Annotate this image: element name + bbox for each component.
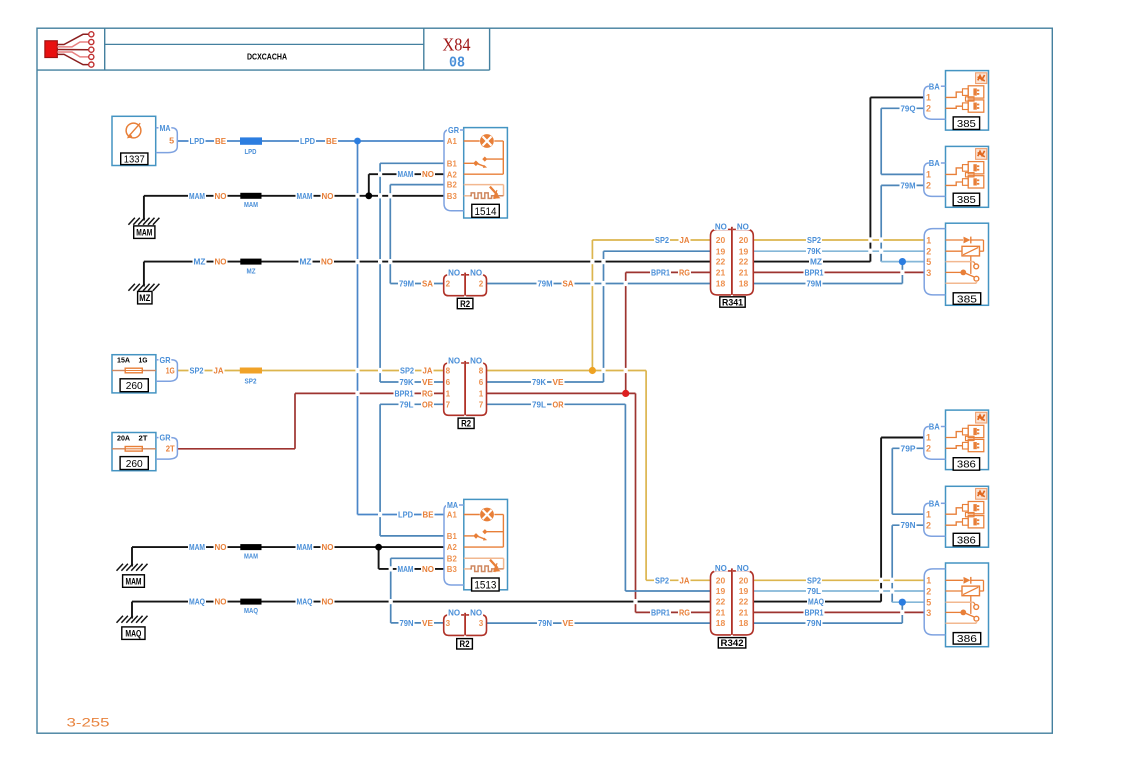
wire 79Q vertical 385.2 to 385.1 [880,108,882,174]
svg-text:JA: JA [680,575,690,585]
junction LPD [354,138,361,145]
wire SP2 R341.20 to 385.1 [753,239,923,241]
svg-text:MAM: MAM [136,228,152,239]
svg-text:1: 1 [926,170,931,180]
svg-text:19: 19 [739,586,749,596]
svg-text:SP2: SP2 [655,575,669,585]
splice LPD [240,137,262,156]
wire SP2-JA into R342.20 [646,579,710,581]
svg-text:21: 21 [739,608,749,618]
svg-text:NO: NO [715,222,728,232]
wire 79N vertical 1513.B2 down to R2 pin3 row [390,558,392,623]
svg-text:18: 18 [716,279,726,289]
svg-text:22: 22 [739,597,749,607]
wire 79M-SA left of R2 [390,283,444,285]
svg-text:A2: A2 [447,542,457,552]
wire 79K R341.19 to 385.2 [753,250,923,252]
svg-text:LPD: LPD [245,149,257,156]
svg-text:BPR1: BPR1 [805,267,824,277]
wire 79N vertical junction to R342.18 row [901,602,903,623]
svg-text:22: 22 [716,597,726,607]
wire SP2-JA fuse to R2.8 [177,370,444,372]
svg-text:21: 21 [716,268,726,278]
svg-text:79N: 79N [807,618,822,628]
svg-text:1: 1 [926,235,932,246]
svg-text:MAM: MAM [297,191,313,201]
svg-text:DCXCACHA: DCXCACHA [247,52,287,61]
svg-text:79M: 79M [901,180,916,190]
wire BPR1 vertical up to R341.21 [625,272,627,393]
svg-text:NO: NO [737,563,750,573]
wire LPD-BE into 1513.A1 [358,514,444,516]
svg-text:15A: 15A [117,356,131,365]
svg-text:NO: NO [448,608,461,618]
wire MAM-NO horizontal top (ground to 1514.B3) [144,195,444,197]
svg-text:2: 2 [926,181,931,191]
svg-text:20: 20 [739,575,749,585]
svg-text:18: 18 [739,618,749,628]
svg-text:NO: NO [215,191,228,201]
svg-text:5: 5 [926,257,932,268]
wire 79P into bottom small 386 pin1 [892,513,924,515]
junction 79N at 386 pin5 [899,599,906,606]
svg-text:20: 20 [716,575,726,585]
svg-text:NO: NO [448,267,461,277]
svg-text:79K: 79K [400,377,414,387]
svg-text:MAM: MAM [297,542,313,552]
ground stub MAM bottom [131,547,133,566]
svg-text:A1: A1 [447,510,457,520]
wire 79L into R342.19 [625,590,710,592]
svg-text:MAQ: MAQ [297,597,313,607]
component 1514 courtesy lamp unit [444,125,507,218]
wire BPR1 R342.21 to 386.3 [753,611,923,613]
svg-text:20: 20 [739,235,749,245]
wire MAQ-NO horizontal (ground to R342.22) [132,601,711,603]
splice MAQ [240,599,261,615]
ground MZ [128,284,159,304]
svg-text:MZ: MZ [194,257,206,267]
svg-text:260: 260 [126,380,143,392]
svg-text:2: 2 [926,444,931,454]
wire 79Q into 385.2 [881,107,924,109]
svg-text:5: 5 [169,135,174,145]
wire MZ R341.22 [753,261,870,263]
page number 3-255 [67,715,110,729]
svg-text:MZ: MZ [810,257,822,267]
svg-text:1514: 1514 [475,206,497,218]
svg-text:3: 3 [926,268,931,279]
wire 79L vertical R2 pin7 row down to 1513.B1 [379,404,381,536]
svg-text:R342: R342 [721,638,744,649]
svg-text:NO: NO [422,169,435,179]
svg-text:3: 3 [926,608,931,619]
wire 79K-VE right of R2.6 [486,381,603,383]
svg-text:3: 3 [446,618,451,628]
ground stub MAM top [143,196,145,221]
wire 79M stub from 1514.B2 [390,184,444,186]
svg-text:MZ: MZ [139,293,150,304]
svg-text:JA: JA [423,366,433,376]
connector 386 lock actuator (pins 1/2/5/3) [924,563,988,647]
svg-text:BA: BA [929,498,940,508]
svg-text:A1: A1 [447,136,457,146]
svg-text:2T: 2T [166,444,176,454]
svg-text:NO: NO [422,564,435,574]
svg-text:19: 19 [739,246,749,256]
sheet code X84 [443,35,471,55]
harness icon [45,32,94,68]
svg-text:386: 386 [957,459,976,471]
wire SP2 R342.20 to 386.1 [753,579,923,581]
wire 79M into middle 385 pin2 [881,184,924,186]
svg-text:JA: JA [680,235,690,245]
svg-text:NO: NO [470,267,483,277]
wire 79L R342.19 to 386.2 [753,590,923,592]
svg-text:1: 1 [926,433,931,443]
wire 79K into R341.19 [604,250,711,252]
wire 79L-OR left of R2.7 [380,403,444,405]
wire LPD vertical (1337/1514.A1 down to 1513.A1) [357,141,359,515]
ground stub MZ [143,262,145,287]
connector 386 upper door lock [924,410,989,471]
wire MAM branch vertical to 1514.A2 [368,174,370,196]
wire 79N into 386 pin5 [892,601,924,603]
fuse 20A 2T box 260 [112,433,177,471]
svg-text:NO: NO [215,597,228,607]
svg-text:79N: 79N [538,618,552,628]
svg-text:SP2: SP2 [807,235,821,245]
svg-text:B2: B2 [447,180,457,190]
svg-text:MAM: MAM [126,577,142,588]
ground MAM bottom [117,564,148,588]
wire 79M into 385 pin5 [881,261,924,263]
svg-text:79N: 79N [901,520,916,530]
svg-text:SP2: SP2 [190,366,204,376]
svg-text:2: 2 [479,279,484,289]
svg-text:1337: 1337 [124,154,145,166]
component 1337 lighting rheostat [112,116,177,165]
svg-text:2: 2 [926,247,931,258]
connector 385 upper door lock [924,71,989,131]
connector R2 (bottom, pin 3) [444,608,487,651]
wire name labels [188,103,917,628]
svg-text:MAM: MAM [398,564,414,574]
wire 79L-OR right of R2.7 [486,403,625,405]
wire SP2 right of R2.8 [486,370,646,372]
svg-text:MAM: MAM [189,191,205,201]
svg-text:19: 19 [716,586,726,596]
svg-text:BE: BE [423,510,434,520]
svg-text:385: 385 [957,293,977,305]
svg-text:VE: VE [563,618,574,628]
svg-text:VE: VE [422,377,433,387]
svg-text:1513: 1513 [474,580,496,592]
wire MAM-NO horizontal bottom (ground to 1513.A2) [132,546,444,548]
connector R341 [711,222,754,309]
svg-text:GR: GR [160,355,171,365]
svg-text:B2: B2 [447,553,457,563]
svg-text:R2: R2 [460,639,470,650]
connector R2 (top, pin 2) [444,267,487,310]
svg-text:21: 21 [716,608,726,618]
wire BPR1 R341.21 to 385.3 [753,271,923,273]
connector R342 [711,563,754,649]
svg-text:MAM: MAM [398,169,414,179]
svg-text:MAQ: MAQ [189,597,205,607]
svg-text:MAM: MAM [244,202,258,209]
svg-text:SP2: SP2 [807,575,821,585]
svg-text:MAM: MAM [244,554,258,561]
svg-text:7: 7 [446,399,451,409]
junction MAM bottom [375,544,382,551]
svg-text:22: 22 [739,257,749,267]
svg-text:NO: NO [322,191,335,201]
wire 79N R342.18 [753,622,902,624]
svg-text:2T: 2T [139,433,148,442]
svg-text:A2: A2 [447,169,457,179]
connector 386 lower door lock [924,486,989,547]
wire 79Q into middle 385 pin1 [881,173,924,175]
svg-text:385: 385 [957,194,976,206]
svg-text:LPD: LPD [300,136,315,146]
svg-text:MAQ: MAQ [244,608,258,615]
wire SP2-JA into R341.20 [592,239,710,241]
wire 79K stub from 1514.B1 [380,162,444,164]
svg-text:1: 1 [926,93,931,103]
wire 79K vertical 1514.B1 to R2 pin6 row [379,163,381,382]
wire 79L into 1513.B1 [380,535,444,537]
svg-text:NO: NO [321,257,334,267]
sheet number 08 [449,56,465,72]
svg-text:21: 21 [739,268,749,278]
svg-text:2: 2 [926,520,931,530]
svg-text:BA: BA [929,422,940,432]
svg-text:79P: 79P [901,443,916,453]
svg-text:386: 386 [957,534,976,546]
svg-text:MAQ: MAQ [808,597,824,607]
wire BPR1 vertical from fuse 2T [294,393,296,448]
wire MAM-NO branch to 1514.A2 [369,173,444,175]
wire BPR1 right of R2.1 [486,392,635,394]
svg-text:MZ: MZ [300,257,312,267]
svg-text:2: 2 [926,104,931,114]
svg-text:1G: 1G [166,365,175,375]
wire 79K-VE left of R2.6 [380,381,444,383]
wire 79M vertical 385.2 down to pin5 row [880,185,882,261]
svg-text:BPR1: BPR1 [651,607,670,617]
svg-text:8: 8 [446,366,451,376]
connector 385 lock actuator (pins 1/2/5/3) [924,223,988,305]
junction BPR1 [622,390,629,397]
svg-text:2: 2 [926,586,931,597]
wire 79N-VE left of R2.3 [391,622,444,624]
svg-text:OR: OR [553,399,564,409]
svg-text:JA: JA [214,366,224,376]
splice SP2 [240,368,262,386]
connector 385 middle door lock [924,146,989,207]
svg-text:VE: VE [553,377,564,387]
svg-text:20A: 20A [117,433,131,442]
svg-text:79L: 79L [807,586,821,596]
splice MAM top [240,193,261,209]
svg-text:NO: NO [215,542,228,552]
svg-text:2: 2 [446,279,451,289]
svg-text:22: 22 [716,257,726,267]
wire 79N vertical 386.2 down to pin5 row [891,525,893,602]
wire MAQ into 386 pin1 [881,437,924,439]
ground stub MAQ [131,602,133,619]
title text DCXCACHA [247,52,287,61]
wire 79L vertical down to R342.19 [624,404,626,591]
svg-text:3: 3 [479,618,484,628]
svg-text:B3: B3 [447,191,457,201]
svg-text:NO: NO [737,222,750,232]
svg-text:B3: B3 [447,564,457,574]
svg-text:79M: 79M [538,279,553,289]
svg-text:GR: GR [160,433,171,443]
svg-text:1: 1 [926,576,932,587]
wire MAQ R342.22 [753,601,881,603]
ground MAQ [117,616,148,640]
svg-text:79L: 79L [532,399,546,409]
wire 79M R341.18 [753,283,902,285]
wire LPD-BE horizontal 1337 to 1514.A1 [177,140,444,142]
svg-text:SA: SA [563,279,574,289]
svg-text:6: 6 [446,377,451,387]
svg-text:NO: NO [448,356,461,366]
svg-text:X84: X84 [443,35,471,55]
svg-text:LPD: LPD [190,136,205,146]
svg-text:RG: RG [679,607,690,617]
svg-text:MA: MA [447,500,458,510]
svg-text:79K: 79K [532,377,546,387]
ground MAM top [128,218,159,239]
fuse 15A 1G box 260 [112,355,177,393]
svg-text:NO: NO [715,563,728,573]
svg-text:SP2: SP2 [245,378,257,385]
svg-text:08: 08 [449,56,465,72]
svg-text:1: 1 [446,389,451,399]
wire MAQ vertical up to 386 pin1 [880,438,882,602]
svg-text:RG: RG [422,388,433,398]
connector R2 (middle, pins 8/6/1/7) [444,356,487,430]
wire BPR1-RG left of R2.1 [295,392,444,394]
wire 79K vertical up to R341.19 [603,251,605,382]
svg-text:6: 6 [479,377,484,387]
svg-text:1: 1 [479,389,484,399]
wire MAM branch vertical to 1513.B3 [378,547,380,569]
svg-text:1: 1 [926,509,931,519]
svg-text:3-255: 3-255 [67,715,110,729]
svg-text:7: 7 [479,399,484,409]
svg-text:MAQ: MAQ [125,629,141,640]
svg-text:386: 386 [957,633,977,645]
wire 79N into bottom small 386 pin2 [892,524,924,526]
svg-text:8: 8 [479,366,484,376]
wire BPR1 vertical down to R342.21 [635,393,637,612]
wire 79N-VE right of R2.3 to R342.18 [486,622,710,624]
svg-text:BPR1: BPR1 [805,607,824,617]
svg-text:79L: 79L [400,399,414,409]
wire MZ vertical up to 385 pin1 [869,97,871,261]
wire MZ-NO horizontal (ground to R341.22) [144,261,711,263]
splice MAM bottom [240,544,261,560]
svg-text:BA: BA [929,158,940,168]
wire SP2 vertical up to R341.20 [591,240,593,371]
wire BPR1-RG into R342.21 [636,611,711,613]
svg-text:LPD: LPD [398,510,413,520]
wire SP2 vertical down to R342.20 [645,371,647,581]
svg-text:18: 18 [716,618,726,628]
wire 79M-SA right of R2 to R341.18 [486,283,710,285]
svg-text:R2: R2 [461,419,471,430]
svg-text:385: 385 [957,118,976,130]
svg-text:MZ: MZ [247,269,257,276]
svg-text:MA: MA [160,123,171,133]
wire 79M vertical junction to R341.18 row [901,262,903,284]
svg-text:SP2: SP2 [655,235,669,245]
svg-text:NO: NO [215,257,228,267]
svg-text:R341: R341 [722,297,744,308]
svg-text:NO: NO [322,542,335,552]
junction SP2 [589,367,596,374]
svg-text:BE: BE [215,136,226,146]
svg-text:1G: 1G [139,356,148,365]
svg-text:R2: R2 [460,299,470,310]
svg-text:OR: OR [422,399,433,409]
svg-text:BE: BE [326,136,337,146]
svg-text:BPR1: BPR1 [395,388,414,398]
svg-text:18: 18 [739,279,749,289]
svg-text:BPR1: BPR1 [651,267,670,277]
wire 79P vertical 386.2 to 386.1 [891,448,893,514]
wire MAM-NO branch to 1513.B3 [379,568,444,570]
svg-text:79K: 79K [807,246,821,256]
junction 79M at 385 pin5 [899,258,906,265]
svg-text:NO: NO [470,608,483,618]
svg-text:B1: B1 [447,158,457,168]
splice MZ [240,259,261,276]
junction MAM top [365,192,372,199]
component 1513 courtesy lamp unit [444,499,508,591]
wire 2T from fuse 260 [177,448,295,450]
wire MZ into 385 pin1 [870,96,923,98]
svg-text:NO: NO [322,597,335,607]
svg-text:NO: NO [470,356,483,366]
svg-text:79M: 79M [807,279,822,289]
svg-text:VE: VE [422,618,433,628]
wire crossing gaps [355,172,904,615]
wire 79P into top 386 pin2 [892,447,924,449]
svg-text:SP2: SP2 [400,366,414,376]
svg-text:B1: B1 [447,531,457,541]
svg-text:20: 20 [716,235,726,245]
svg-text:GR: GR [448,125,459,135]
svg-text:79N: 79N [400,618,414,628]
svg-text:MAM: MAM [189,542,205,552]
wire BPR1-RG into R341.21 [626,271,711,273]
svg-text:BA: BA [929,81,940,91]
svg-text:SA: SA [422,279,433,289]
svg-text:RG: RG [679,267,690,277]
svg-text:260: 260 [126,458,143,470]
svg-text:19: 19 [716,246,726,256]
wire 79M vertical 1514.B2 to R2 pin2 row [389,185,391,284]
svg-text:79M: 79M [399,279,414,289]
wire 79N from 1513.B2 [391,557,444,559]
svg-text:79Q: 79Q [901,103,917,113]
